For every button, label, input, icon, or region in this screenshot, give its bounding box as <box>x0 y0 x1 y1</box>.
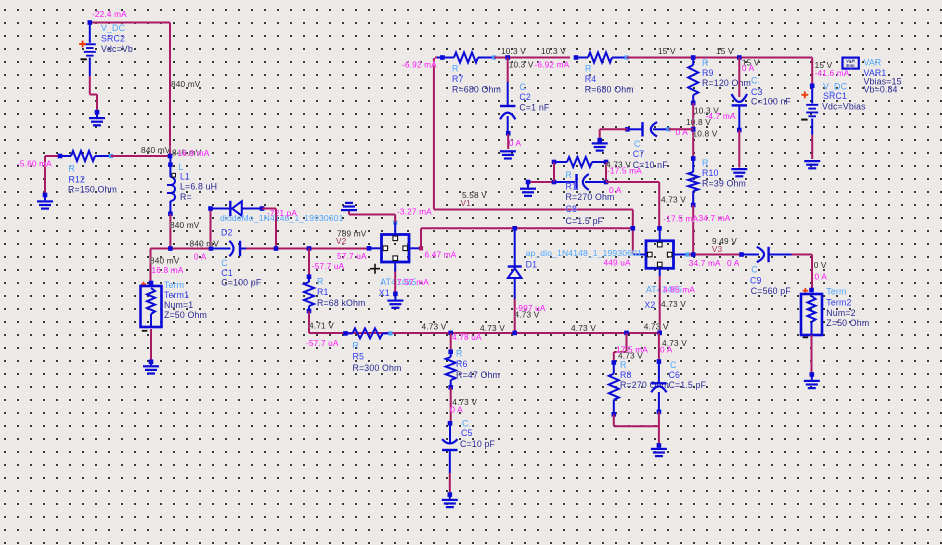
svg-text:7.57 mA: 7.57 mA <box>397 277 429 287</box>
svg-text:D1: D1 <box>526 260 538 270</box>
svg-text:C.: C. <box>462 419 471 429</box>
svg-text:C: C <box>751 264 758 274</box>
wire X1 right net <box>420 228 422 248</box>
wire R8 bottom <box>613 414 615 426</box>
svg-text:R=47 Ohm: R=47 Ohm <box>456 370 500 380</box>
svg-text:4.73 V: 4.73 V <box>422 322 447 332</box>
wire C5 to ground <box>449 473 451 494</box>
svg-text:R7: R7 <box>452 74 464 84</box>
wire R7 to C2 node <box>494 57 570 59</box>
ground left of combo <box>526 180 531 185</box>
svg-text:Term1: Term1 <box>164 290 189 300</box>
wire R6 to C5 <box>450 387 452 422</box>
dc source SRC2 <box>89 23 91 43</box>
svg-text:Vdc=Vb: Vdc=Vb <box>101 44 133 54</box>
svg-text:10.3 V: 10.3 V <box>541 46 566 56</box>
wire C1 to X1 <box>246 248 368 250</box>
resistor R6 <box>448 350 453 355</box>
svg-text:-17.5 mA: -17.5 mA <box>663 213 698 223</box>
ground below X1 <box>393 292 398 297</box>
svg-text:840 mV: 840 mV <box>150 256 180 266</box>
svg-text:C5: C5 <box>461 428 473 438</box>
svg-text:16.9 mA: 16.9 mA <box>178 148 210 158</box>
svg-text:-5.60 mA: -5.60 mA <box>17 159 52 169</box>
svg-text:57.7 uA: 57.7 uA <box>337 251 367 261</box>
resistor R1 <box>307 274 312 279</box>
svg-text:Vdc=Vbias: Vdc=Vbias <box>822 102 866 112</box>
svg-text:C=1.5 pF: C=1.5 pF <box>669 380 707 390</box>
svg-text:C8: C8 <box>566 204 578 214</box>
capacitor C7 <box>625 127 630 132</box>
svg-text:C=100 pF: C=100 pF <box>221 278 262 288</box>
svg-text:C7: C7 <box>633 149 645 159</box>
svg-text:D2: D2 <box>221 227 233 237</box>
port Term2 <box>809 288 814 293</box>
wire combo to X2 top <box>606 181 659 183</box>
svg-text:840 mV: 840 mV <box>171 79 201 89</box>
resistor R8 <box>612 360 617 365</box>
svg-text:10.3 V: 10.3 V <box>509 60 534 70</box>
ground below C5 <box>448 492 453 497</box>
wire D1 to rail <box>514 299 516 333</box>
svg-text:V3: V3 <box>712 244 723 254</box>
svg-text:R6: R6 <box>456 359 468 369</box>
ground below Term2 <box>810 372 815 377</box>
svg-text:C6: C6 <box>669 370 681 380</box>
svg-text:Eqn: Eqn <box>846 63 855 68</box>
resistor R7 <box>435 57 437 59</box>
svg-text:-3.27 mA: -3.27 mA <box>397 207 432 217</box>
wire D2 left riser <box>210 209 212 249</box>
wire X2 bottom <box>659 276 661 333</box>
svg-text:V2: V2 <box>336 236 347 246</box>
svg-text:0 A: 0 A <box>660 345 673 355</box>
wire C7 to R9R10 <box>669 128 694 130</box>
ground below Term1 <box>149 360 154 365</box>
node junction 840mV <box>168 154 173 159</box>
wire R9 to R10 <box>692 103 694 158</box>
svg-text:R=120 Ohm: R=120 Ohm <box>702 78 751 88</box>
wire R10 to X2 row <box>692 205 694 255</box>
svg-text:4.73 V: 4.73 V <box>515 310 540 320</box>
svg-text:840 mV: 840 mV <box>190 239 220 249</box>
svg-text:16.8 mA: 16.8 mA <box>152 265 184 275</box>
svg-text:R=270 Ohm: R=270 Ohm <box>566 192 615 202</box>
ground below SRC2 <box>95 110 100 115</box>
svg-text:C1: C1 <box>221 268 233 278</box>
svg-text:15 V: 15 V <box>658 46 676 56</box>
capacitor C9 <box>740 254 743 256</box>
svg-text:-22.4 mA: -22.4 mA <box>92 9 127 19</box>
svg-text:R9: R9 <box>702 68 714 78</box>
wire SRC2 top to vertical feed <box>90 22 170 24</box>
svg-text:SRC2: SRC2 <box>101 34 125 44</box>
resistor R11 with C8 <box>552 160 557 165</box>
svg-text:C: C <box>519 82 526 92</box>
svg-text:R: R <box>353 341 360 351</box>
svg-text:-57.7 uA: -57.7 uA <box>306 338 339 348</box>
svg-text:VAR: VAR <box>864 58 882 68</box>
wire X2 right row <box>689 254 741 256</box>
wire X1 bottom to ground <box>394 272 396 293</box>
wire V1 net <box>433 58 435 210</box>
svg-text:L=6.8 uH: L=6.8 uH <box>180 182 217 192</box>
svg-text:R5: R5 <box>353 352 365 362</box>
svg-text:R: R <box>702 158 709 168</box>
svg-text:4.85 mA: 4.85 mA <box>663 284 695 294</box>
ground below C6 <box>657 443 662 448</box>
resistor R10 <box>691 156 696 161</box>
svg-text:4.71 V: 4.71 V <box>309 321 334 331</box>
svg-text:840 mV: 840 mV <box>141 145 171 155</box>
capacitor C5 <box>448 421 453 426</box>
svg-text:R=680 Ohm: R=680 Ohm <box>452 85 501 95</box>
wire row to Term1 <box>151 248 212 250</box>
wire SRC2 bottom to ground <box>89 76 91 95</box>
svg-text:X1: X1 <box>379 288 390 298</box>
svg-text:0 A: 0 A <box>815 272 828 282</box>
svg-text:4.73 V: 4.73 V <box>480 323 505 333</box>
ground below SRC1 <box>804 160 820 162</box>
wire rail to R8 <box>626 333 628 352</box>
ground above X1 flipped <box>341 209 357 211</box>
svg-text:-17.5 mA: -17.5 mA <box>607 166 642 176</box>
svg-text:Z=50 Ohm: Z=50 Ohm <box>164 310 207 320</box>
svg-text:R10: R10 <box>702 168 719 178</box>
svg-text:0 V: 0 V <box>814 260 827 270</box>
svg-text:R=680 Ohm: R=680 Ohm <box>585 85 634 95</box>
svg-text:Vb=0.84: Vb=0.84 <box>864 85 898 95</box>
svg-text:0 A: 0 A <box>742 63 755 73</box>
svg-text:C.: C. <box>751 76 760 86</box>
svg-text:V1: V1 <box>461 198 472 208</box>
svg-text:4.73 V: 4.73 V <box>661 299 686 309</box>
svg-text:R: R <box>702 58 709 68</box>
transistor X2 <box>646 241 674 268</box>
wire C6 to ground <box>658 412 660 446</box>
ground below R12 wire <box>43 193 48 198</box>
svg-text:4.73 V: 4.73 V <box>644 322 669 332</box>
svg-text:R=150 Ohm: R=150 Ohm <box>68 185 117 195</box>
svg-text:C: C <box>634 139 641 149</box>
svg-text:10.8 V: 10.8 V <box>693 129 718 139</box>
svg-text:R: R <box>317 277 324 287</box>
svg-text:R: R <box>620 360 627 370</box>
svg-text:L: L <box>179 162 184 172</box>
svg-text:0 A: 0 A <box>194 252 207 262</box>
capacitor C2 <box>505 55 510 60</box>
svg-text:Term: Term <box>826 286 846 296</box>
resistor R5 <box>343 331 348 336</box>
svg-text:34.7 mA: 34.7 mA <box>699 213 731 223</box>
svg-text:R1: R1 <box>317 287 329 297</box>
svg-text:C=1.5 pF: C=1.5 pF <box>566 216 604 226</box>
svg-text:R1: R1 <box>566 182 578 192</box>
wire D2 right riser <box>262 208 276 210</box>
svg-text:Term: Term <box>164 280 184 290</box>
svg-text:4.73 V: 4.73 V <box>571 323 596 333</box>
resistor R4 <box>574 55 579 60</box>
svg-text:R: R <box>456 349 463 359</box>
svg-text:4.78 uA: 4.78 uA <box>452 332 482 342</box>
svg-text:-6.92 mA: -6.92 mA <box>402 60 437 70</box>
inductor L1 <box>168 162 173 167</box>
var block VAR1 <box>843 58 859 69</box>
svg-text:6.47 mA: 6.47 mA <box>425 250 457 260</box>
resistor R12 <box>58 154 63 159</box>
svg-text:C: C <box>221 258 228 268</box>
svg-text:R=: R= <box>180 192 192 202</box>
transistor X1 <box>367 246 372 251</box>
capacitor C6 <box>658 333 660 361</box>
diode D1 <box>512 226 517 231</box>
svg-text:10.8 V: 10.8 V <box>686 117 711 127</box>
svg-text:ap_dio_1N4148_1_19930601: ap_dio_1N4148_1_19930601 <box>526 248 642 258</box>
svg-text:0 A: 0 A <box>509 138 522 148</box>
wire C2 to ground <box>507 134 509 149</box>
svg-text:L1: L1 <box>180 171 190 181</box>
svg-text:Num=2: Num=2 <box>826 308 855 318</box>
svg-text:0 A: 0 A <box>450 404 463 414</box>
svg-text:R8: R8 <box>620 370 632 380</box>
capacitor C1 <box>209 246 214 251</box>
capacitor C3 <box>737 55 742 60</box>
svg-text:C3: C3 <box>751 87 763 97</box>
node X2 top <box>657 226 662 231</box>
svg-text:15 V: 15 V <box>716 46 734 56</box>
svg-text:R12: R12 <box>69 174 86 184</box>
ground below C2 <box>500 150 516 152</box>
svg-text:0 A: 0 A <box>727 258 740 268</box>
wire R1 to rail <box>308 311 310 333</box>
svg-text:449 uA: 449 uA <box>604 258 632 268</box>
diode D2 <box>208 206 213 211</box>
svg-text:-57.7 uA: -57.7 uA <box>312 261 345 271</box>
wire bottom rail <box>309 332 660 334</box>
svg-text:SRC1: SRC1 <box>823 91 847 101</box>
svg-text:R: R <box>69 163 76 173</box>
wire combo left to ground <box>528 181 554 183</box>
svg-text:R=68 kOhm: R=68 kOhm <box>317 298 366 308</box>
wire C3 to ground <box>738 130 740 168</box>
wire SRC1 top <box>811 58 813 87</box>
svg-text:R: R <box>452 63 459 73</box>
ground below C7 <box>597 138 602 143</box>
svg-text:R4: R4 <box>585 74 597 84</box>
svg-text:C=10 pF: C=10 pF <box>460 439 496 449</box>
wire C7 left to ground <box>600 128 628 130</box>
ground below C3 <box>731 168 747 170</box>
svg-text:10.3 V: 10.3 V <box>501 46 526 56</box>
wire Term2 to ground <box>811 335 813 374</box>
svg-text:Z=50 Ohm: Z=50 Ohm <box>826 318 869 328</box>
wire X1 top net <box>349 214 395 216</box>
svg-text:R=300 Ohm: R=300 Ohm <box>353 363 402 373</box>
svg-text:V_DC: V_DC <box>101 23 126 33</box>
svg-text:R: R <box>585 63 592 73</box>
svg-text:C2: C2 <box>519 92 531 102</box>
svg-text:840 mV: 840 mV <box>170 220 200 230</box>
wire to R1 <box>308 249 310 276</box>
wire rail to R6 <box>450 333 452 351</box>
dc source SRC1 <box>810 84 815 89</box>
wire Term1 to ground <box>150 329 152 361</box>
svg-text:C9: C9 <box>750 276 762 286</box>
wire C9 to Term2 <box>792 254 813 256</box>
port Term1 <box>149 281 154 286</box>
svg-text:Num=1: Num=1 <box>164 300 193 310</box>
svg-text:-6.92 mA: -6.92 mA <box>535 60 570 70</box>
svg-text:R=39 Ohm: R=39 Ohm <box>702 179 746 189</box>
resistor R9 <box>691 55 696 60</box>
svg-text:C=560 pF: C=560 pF <box>751 286 792 296</box>
svg-text:X2: X2 <box>644 300 655 310</box>
node L1 row junction <box>168 246 173 251</box>
wire R4 to SRC1 <box>627 57 813 59</box>
svg-text:C: C <box>670 360 677 370</box>
svg-text:Term2: Term2 <box>826 297 851 307</box>
wire SRC1 to ground <box>811 135 813 159</box>
svg-text:C=1 nF: C=1 nF <box>519 103 549 113</box>
svg-text:R=270 Ohm: R=270 Ohm <box>620 380 669 390</box>
svg-text:V_DC: V_DC <box>823 81 848 91</box>
wire R12 to junction <box>111 155 170 157</box>
svg-text:34.7 mA: 34.7 mA <box>689 258 721 268</box>
svg-text:C=100 nF: C=100 nF <box>751 97 792 107</box>
wire ground to R12 <box>45 155 60 157</box>
svg-text:R: R <box>566 170 573 180</box>
wire L1 to row <box>169 214 171 249</box>
svg-text:4.73 V: 4.73 V <box>661 195 686 205</box>
